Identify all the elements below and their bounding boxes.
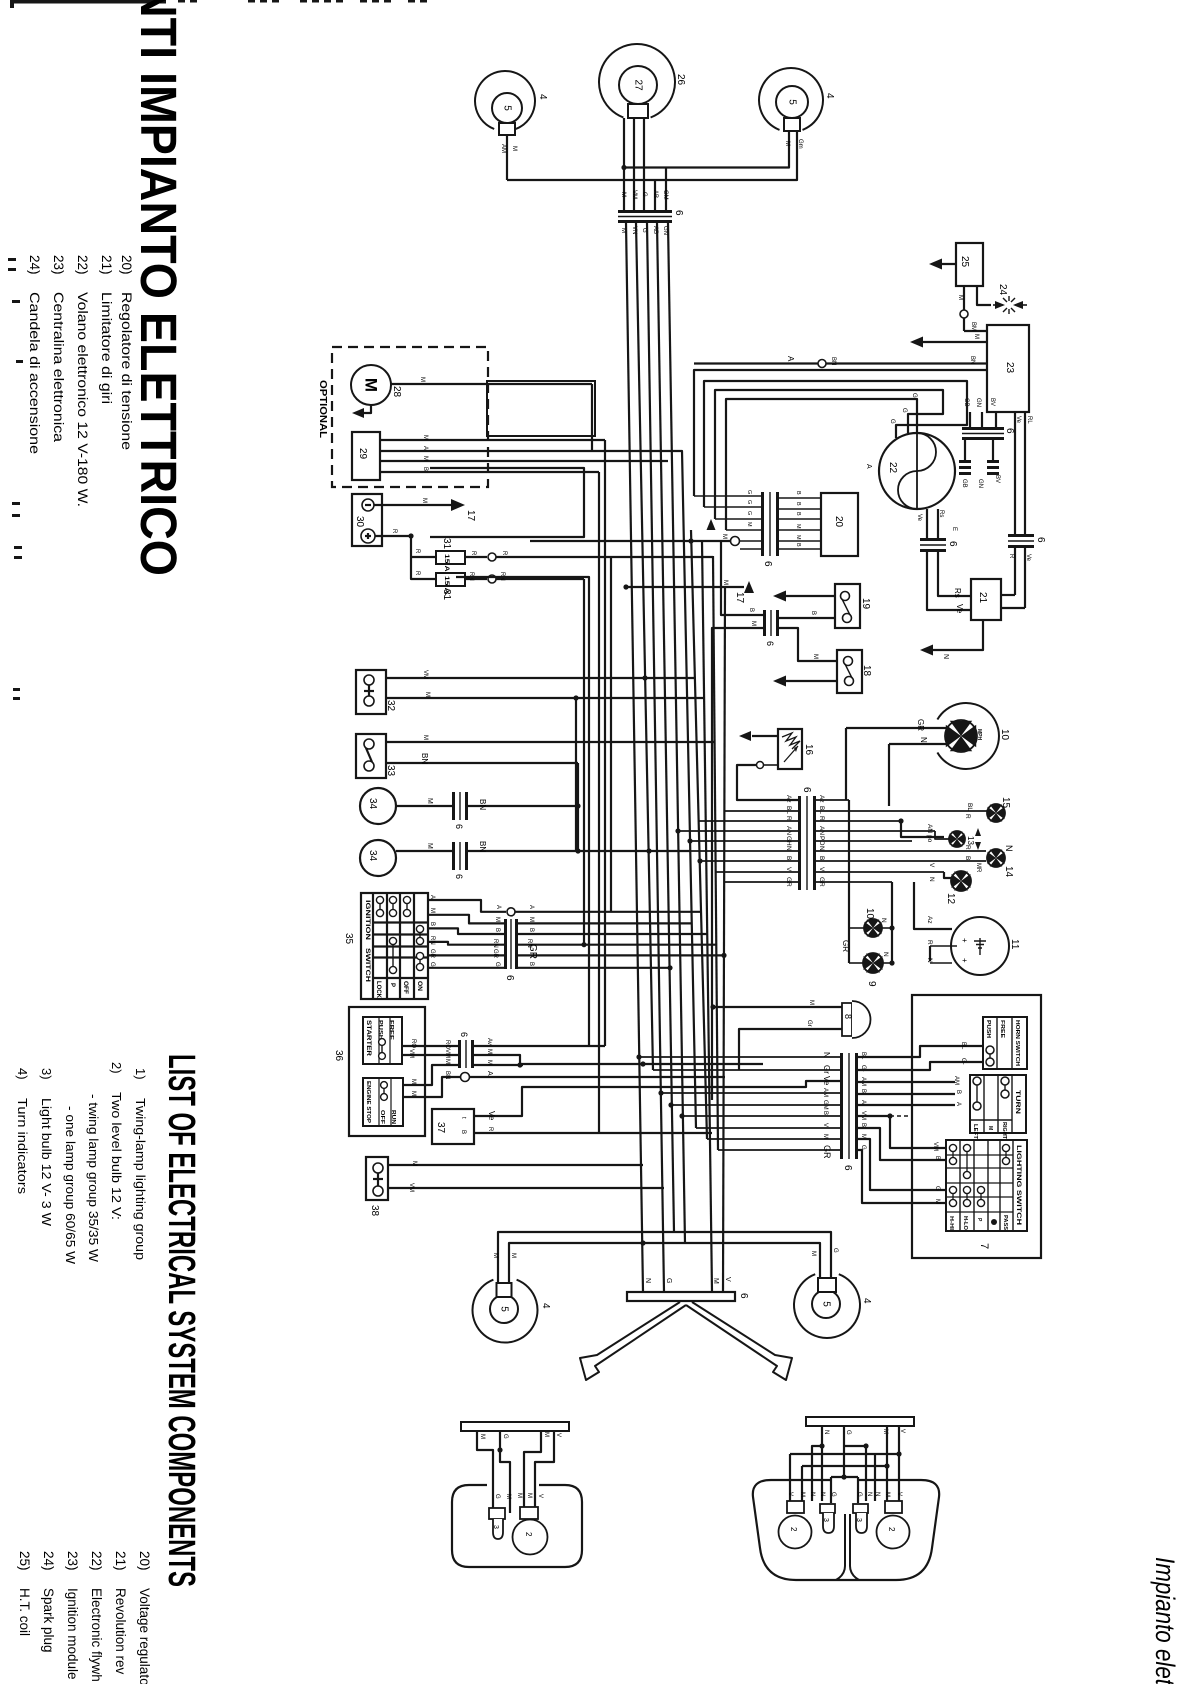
svg-text:M: M (784, 141, 790, 146)
svg-text:V: V (787, 1492, 793, 1496)
svg-text:M: M (422, 735, 428, 740)
nested arch wire to flywheel G2 (715, 390, 943, 519)
svg-text:5: 5 (821, 1301, 832, 1307)
svg-text:B: B (748, 608, 754, 612)
svg-text:BN: BN (478, 841, 487, 852)
svg-text:GR: GR (822, 1145, 832, 1159)
wires into connector 20 from loops (694, 495, 761, 497)
svg-text:N: N (1004, 845, 1014, 852)
svg-text:AB: AB (652, 190, 658, 198)
svg-text:GB: GB (961, 479, 967, 488)
horn 8 (842, 1003, 852, 1036)
svg-text:RN: RN (429, 936, 435, 945)
svg-text:BV: BV (989, 398, 995, 406)
svg-text:M: M (422, 456, 428, 461)
wires bulbs 10 9 connections (849, 927, 864, 929)
flasher unit 16 (778, 729, 802, 769)
stop switch box 18 (837, 650, 862, 693)
svg-text:G: G (746, 511, 752, 515)
terminal pair GN (987, 460, 999, 463)
svg-text:B: B (860, 1089, 866, 1093)
fuse lower wire with terminal RN (465, 578, 487, 580)
svg-text:R: R (470, 551, 476, 556)
svg-text:M: M (808, 1000, 814, 1005)
turn indicator bulb 14 (987, 849, 1005, 867)
svg-text:10: 10 (999, 729, 1010, 741)
svg-text:Regolatore di tensione: Regolatore di tensione (119, 292, 134, 450)
svg-text:6: 6 (504, 975, 515, 981)
svg-text:M: M (746, 522, 752, 527)
svg-text:21): 21) (99, 255, 114, 275)
svg-text:B: B (429, 922, 435, 926)
connector box 32 (356, 670, 386, 714)
wire left lamp down (506, 135, 508, 180)
svg-text:G-: G- (960, 1058, 966, 1065)
wires to 11 (914, 882, 952, 929)
wire 18 bottom arrow (786, 680, 837, 682)
svg-text:33: 33 (385, 765, 396, 777)
svg-text:A: A (786, 356, 795, 362)
svg-text:M: M (411, 1161, 417, 1166)
wire 37 Ve (474, 1081, 840, 1116)
svg-text:N: N (809, 1492, 815, 1496)
svg-text:R: R (964, 845, 971, 850)
svg-text:38: 38 (369, 1205, 380, 1217)
svg-text:A: A (955, 1102, 961, 1106)
svg-text:3): 3) (39, 1068, 54, 1080)
ignition module box 23 (987, 325, 1029, 412)
wires 23 bottom to connector 6 (1014, 412, 1016, 534)
svg-text:GR: GR (492, 949, 498, 959)
connector 6 right of 21 (1008, 534, 1034, 548)
svg-text:M: M (362, 378, 381, 392)
svg-text:+: + (960, 958, 969, 963)
svg-text:6: 6 (454, 824, 464, 829)
svg-text:M: M (712, 1278, 719, 1284)
svg-text:V: V (822, 1123, 828, 1127)
starter switch box 36 (349, 1007, 425, 1136)
svg-text:B: B (494, 928, 500, 932)
HT coil box 25 (956, 243, 983, 286)
svg-text:20): 20) (137, 1551, 152, 1571)
svg-text:Turn indicators: Turn indicators (15, 1098, 30, 1195)
svg-text:Ve: Ve (955, 604, 964, 614)
svg-text:4: 4 (824, 93, 835, 99)
svg-text:NTI IMPIANTO ELETTRICO: NTI IMPIANTO ELETTRICO (130, 0, 187, 576)
svg-text:LEFT: LEFT (972, 1124, 978, 1139)
svg-text:A: A (865, 464, 872, 469)
connector 6 on 34 upper wire (452, 792, 468, 820)
sensor 34 upper (360, 788, 396, 824)
svg-text:23): 23) (51, 255, 66, 275)
wire 21 right (1001, 594, 1015, 596)
svg-text:Ve: Ve (1025, 554, 1031, 562)
wire 19 top arrow (786, 595, 835, 597)
svg-text:GR: GR (916, 719, 925, 731)
wire 19 bottom to connector (779, 617, 835, 619)
switch box 33 (356, 734, 386, 778)
svg-text:B: B (955, 1090, 961, 1094)
svg-text:M: M (424, 692, 430, 697)
svg-text:po: po (926, 835, 933, 843)
svg-text:A: A (486, 1071, 493, 1076)
svg-text:3: 3 (855, 1518, 862, 1522)
wire bus upper (624, 131, 789, 168)
wire 32 VM (386, 677, 695, 679)
svg-text:OPTIONAL: OPTIONAL (317, 380, 328, 438)
tail light wires (477, 1431, 493, 1509)
svg-text:A: A (528, 905, 534, 909)
svg-text:M: M (444, 1059, 450, 1064)
left loop rectangle B (430, 468, 584, 537)
wire 36 M row (402, 1065, 523, 1085)
svg-text:M: M (799, 1492, 805, 1497)
svg-text:TURN: TURN (1014, 1090, 1020, 1114)
svg-text:30: 30 (354, 516, 365, 528)
svg-text:- one lamp group 60/65 W: - one lamp group 60/65 W (63, 1106, 78, 1265)
svg-text:M: M (934, 1199, 940, 1204)
svg-text:BL: BL (966, 803, 973, 811)
head light connector bar (806, 1417, 914, 1426)
svg-text:M: M (810, 1251, 816, 1256)
svg-text:2: 2 (887, 1527, 896, 1532)
svg-text:M: M (426, 798, 433, 804)
svg-text:M: M (543, 1432, 549, 1437)
nested arch wire to flywheel G3 (726, 399, 917, 530)
svg-text:12: 12 (945, 893, 956, 905)
svg-text:STARTER: STARTER (365, 1020, 371, 1057)
svg-text:Rs: Rs (938, 510, 944, 517)
svg-text:M: M (721, 534, 727, 539)
svg-text:M: M (426, 843, 433, 849)
svg-text:G: G (911, 393, 917, 398)
svg-text:Light bulb 12 V- 3 W: Light bulb 12 V- 3 W (39, 1098, 54, 1227)
wire bus lower across (507, 131, 797, 180)
svg-text:G: G (665, 1278, 672, 1283)
sub box starter (363, 1017, 402, 1064)
wire M motor to riser (391, 383, 592, 385)
svg-text:M: M (494, 917, 500, 922)
wire 16 left arrow (752, 735, 778, 737)
svg-text:M: M (884, 1492, 890, 1497)
svg-text:G: G (856, 1492, 862, 1497)
wire N to 10 (889, 743, 948, 745)
svg-text:35: 35 (343, 933, 354, 945)
wires below right connector (1014, 548, 1016, 595)
left loop rectangle C (456, 577, 589, 672)
connector 6 ignition switch (504, 919, 518, 969)
svg-text:B: B (964, 856, 971, 860)
svg-text:4): 4) (15, 1068, 30, 1080)
svg-text:A: A (422, 446, 428, 450)
svg-text:M: M (620, 192, 626, 197)
svg-text:Ve: Ve (916, 514, 922, 522)
svg-text:5: 5 (499, 1306, 510, 1312)
switch grid lines 35 (373, 921, 428, 923)
svg-text:R: R (414, 549, 420, 554)
svg-text:V: V (555, 1433, 561, 1437)
svg-text:6: 6 (765, 641, 775, 646)
svg-text:VM: VM (408, 1183, 414, 1192)
brake switch box 19 (835, 584, 860, 628)
svg-text:3: 3 (492, 1525, 499, 1529)
svg-text:Two level bulb 12 V:: Two level bulb 12 V: (109, 1092, 124, 1220)
head light housing (753, 1480, 939, 1580)
svg-text:VM: VM (408, 1049, 414, 1058)
svg-text:M: M (410, 1079, 416, 1084)
svg-text:R: R (501, 551, 507, 556)
svg-text:Az: Az (785, 795, 792, 803)
svg-text:Ve: Ve (1015, 416, 1021, 424)
svg-text:M: M (421, 498, 427, 503)
wire 33 BN (386, 762, 578, 764)
svg-text:GM: GM (662, 190, 668, 200)
svg-text:A: A (495, 905, 501, 909)
connector 6 between 22 and 23 (962, 427, 1004, 440)
connector box 38 (366, 1157, 388, 1200)
svg-text:B: B (422, 467, 428, 471)
svg-text:Rs: Rs (953, 588, 962, 598)
svg-text:G: G (832, 1248, 838, 1253)
svg-text:B: B (528, 928, 534, 932)
wire 34 upper (396, 805, 578, 807)
wire 36 RO row (402, 1045, 458, 1047)
svg-text:20): 20) (119, 255, 134, 275)
svg-text:16: 16 (803, 744, 814, 756)
svg-text:V: V (896, 1492, 902, 1496)
svg-text:M: M (516, 1493, 522, 1498)
svg-text:Ve: Ve (487, 1111, 496, 1121)
left loop C riser down (588, 672, 590, 1046)
svg-text:34: 34 (367, 798, 378, 810)
wires out of lower connector to switch box 7 (858, 1046, 983, 1057)
junction dots on bottom rails (636, 1054, 641, 1059)
svg-text:IGNITION: IGNITION (364, 900, 371, 940)
wire 35 GR row (428, 954, 504, 956)
svg-text:B: B (810, 611, 816, 615)
svg-text:B: B (795, 543, 801, 547)
svg-text:Limitatore di giri: Limitatore di giri (99, 292, 114, 404)
svg-text:M: M (722, 580, 728, 585)
svg-text:6: 6 (673, 210, 684, 216)
wire 37 R (474, 1132, 712, 1134)
big arrow left (580, 1302, 686, 1380)
horn switch sub box (983, 1017, 1027, 1069)
svg-text:Az: Az (926, 916, 933, 924)
bottom lamp bus wires (498, 1232, 831, 1283)
svg-text:PUSH: PUSH (377, 1020, 383, 1040)
bottom connector bar 6 (627, 1292, 735, 1301)
svg-text:PUSH: PUSH (985, 1020, 991, 1038)
spark gap symbol (993, 304, 1003, 306)
svg-text:B: B (818, 856, 825, 860)
svg-text:N: N (823, 1430, 829, 1434)
svg-text:6: 6 (459, 1032, 469, 1037)
svg-text:M: M (526, 1493, 532, 1498)
svg-text:AM: AM (953, 1076, 959, 1085)
lamp 5 top-right with ring (759, 68, 823, 130)
high beam bulb 12 (951, 871, 971, 891)
svg-text:RO: RO (410, 1039, 416, 1048)
wire 36 A row (402, 1077, 460, 1097)
svg-text:B: B (860, 1123, 866, 1127)
head bulb 2 right (885, 1501, 902, 1513)
svg-text:BM: BM (970, 322, 976, 331)
connector 6 starter switch (458, 1040, 474, 1068)
svg-text:28: 28 (391, 386, 402, 398)
svg-text:V: V (724, 1277, 731, 1282)
switch assembly box 7 (912, 995, 1041, 1258)
fuse upper wire with terminal (465, 556, 487, 558)
svg-text:Ignition module: Ignition module (65, 1588, 80, 1680)
svg-text:R: R (487, 1127, 493, 1132)
svg-text:GN: GN (977, 479, 983, 488)
svg-text:6: 6 (842, 1165, 853, 1171)
svg-text:36: 36 (333, 1050, 344, 1062)
wire 16 bottom terminal (757, 762, 764, 769)
svg-text:M: M (486, 1049, 492, 1054)
wire GR to 10 (846, 727, 947, 729)
svg-text:B: B (795, 502, 801, 506)
svg-text:9: 9 (866, 981, 877, 987)
svg-text:B: B (528, 962, 534, 966)
connector 6 top trunk (618, 210, 672, 223)
svg-text:6: 6 (738, 1293, 749, 1299)
ground arrow at 25 (935, 263, 956, 265)
page edge line top-left (10, 0, 166, 4)
wire 32 M (386, 697, 704, 699)
svg-text:N: N (819, 1492, 825, 1496)
tail light connector bar (461, 1422, 569, 1431)
svg-text:10: 10 (864, 908, 875, 920)
svg-text:22: 22 (887, 462, 898, 474)
svg-text:LOCK: LOCK (375, 981, 381, 999)
wire battery plus (375, 535, 411, 537)
svg-text:G: G (830, 1492, 836, 1497)
svg-text:FREE: FREE (999, 1020, 1005, 1038)
wires into lower connector from trunk (639, 1056, 840, 1058)
wires left of main connector from trunk (737, 799, 798, 801)
fuse 31 lower 15A (436, 573, 465, 586)
speedo lamp 10 (937, 703, 999, 769)
svg-text:23): 23) (65, 1551, 80, 1571)
svg-text:21): 21) (113, 1551, 128, 1571)
nested arch wire to flywheel G1 (704, 381, 967, 507)
svg-text:G: G (502, 1434, 508, 1439)
svg-text:M: M (987, 1126, 993, 1130)
wire 34 lower (396, 850, 690, 852)
connector 6 main vertical (798, 796, 816, 890)
left loop rectangle A (487, 381, 595, 436)
wires 23 to connector (969, 412, 971, 427)
connector 6 below 22 (920, 538, 946, 552)
svg-text:25: 25 (959, 256, 970, 268)
svg-text:R: R (964, 814, 971, 819)
wire 23 top from 24 (964, 330, 987, 332)
svg-text:G: G (845, 1430, 851, 1435)
svg-text:VM: VM (422, 670, 428, 679)
svg-text:N: N (866, 1492, 872, 1496)
cut-off text fragments top edge (178, 0, 185, 3)
svg-text:FREE: FREE (388, 1020, 394, 1040)
svg-text:14: 14 (1003, 866, 1014, 878)
svg-text:G: G (746, 500, 752, 504)
svg-text:ON: ON (416, 981, 422, 991)
svg-text:15: 15 (1000, 797, 1011, 809)
svg-text:V: V (537, 1494, 543, 1498)
svg-text:M: M (492, 1253, 498, 1258)
trunk vertical wires main run - slight scan skew (626, 223, 643, 1292)
svg-text:RO: RO (444, 1040, 450, 1049)
svg-text:24): 24) (27, 255, 42, 275)
terminal pair GB (959, 460, 971, 463)
lamp 5 top-left with ring (475, 71, 535, 129)
wire 35 M row (428, 915, 504, 924)
svg-text:Revolution rev: Revolution rev (113, 1588, 128, 1675)
svg-text:M: M (410, 1091, 416, 1096)
svg-text:24): 24) (41, 1551, 56, 1571)
riser wires left of trunk (591, 384, 593, 451)
connector 6 on 34 lower wire (452, 842, 468, 870)
svg-text:VM: VM (631, 190, 637, 199)
wires from box 29 (380, 439, 605, 441)
svg-text:19: 19 (860, 598, 871, 610)
svg-text:Voltage regulator: Voltage regulator (137, 1588, 152, 1684)
svg-text:Candela di accensione: Candela di accensione (27, 292, 42, 454)
svg-text:N: N (882, 952, 889, 957)
wires below connector to 21 (927, 552, 971, 610)
svg-text:Centralina elettronica: Centralina elettronica (51, 292, 66, 443)
svg-text:20: 20 (833, 516, 844, 528)
bottom left lamp 5 (473, 1280, 538, 1343)
sensor 34 lower (360, 840, 396, 876)
svg-text:M: M (422, 435, 428, 440)
svg-text:A: A (860, 1100, 866, 1104)
dashed OPTIONAL box (332, 347, 488, 487)
wire 36 VM row (402, 1055, 763, 1064)
svg-text:6: 6 (947, 541, 958, 547)
svg-text:M: M (429, 908, 435, 913)
svg-text:V: V (928, 863, 935, 868)
svg-text:H.T. coil: H.T. coil (17, 1588, 32, 1636)
svg-text:5: 5 (502, 105, 513, 111)
svg-text:GN: GN (975, 398, 981, 407)
svg-text:2): 2) (109, 1062, 124, 1074)
svg-text:8: 8 (843, 1014, 853, 1019)
wire 35 RN row (428, 942, 504, 945)
turn indicator bulb 15 (987, 804, 1005, 822)
svg-text:G: G (494, 962, 500, 967)
svg-text:B: B (795, 491, 801, 495)
switch contacts 35 (376, 896, 383, 903)
connector 6 at 20 (761, 492, 779, 556)
svg-text:PASS: PASS (1002, 1215, 1008, 1231)
svg-text:G: G (641, 192, 647, 197)
svg-text:2: 2 (789, 1527, 798, 1532)
svg-text:6: 6 (801, 787, 812, 793)
svg-text:18: 18 (861, 665, 872, 677)
svg-text:Spark plug: Spark plug (41, 1588, 56, 1653)
svg-text:32: 32 (385, 700, 396, 712)
svg-text:OFF: OFF (402, 981, 408, 994)
svg-text:Volano elettronico 12 V-180 W.: Volano elettronico 12 V-180 W. (75, 292, 90, 507)
flywheel generator 22 (879, 433, 955, 509)
wires right of main connector (816, 799, 849, 801)
svg-text:6: 6 (1004, 428, 1015, 434)
svg-text:BN: BN (420, 753, 429, 764)
head bulb 3 right (853, 1504, 868, 1513)
svg-text:Impianto elet: Impianto elet (1150, 1557, 1180, 1684)
